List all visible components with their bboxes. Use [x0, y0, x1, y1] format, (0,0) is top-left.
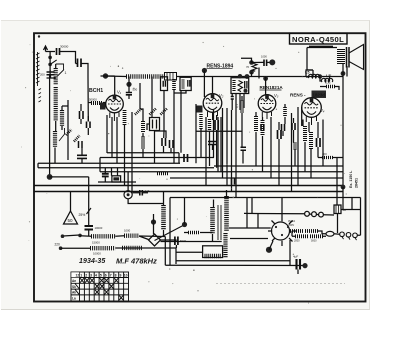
wire loop bottom inner: [176, 260, 290, 262]
resistor R-v3c: [283, 107, 287, 117]
triangle 50Hz: [64, 211, 78, 224]
wire top right loop: [307, 48, 347, 77]
coil T1: [172, 79, 176, 90]
svg-text:8: 8: [115, 274, 117, 278]
wire: [62, 100, 68, 160]
wire: [242, 150, 244, 163]
coil L3: [53, 131, 57, 148]
svg-text:25%: 25%: [79, 213, 86, 217]
svg-text:10: 10: [124, 274, 128, 278]
svg-text:50: 50: [68, 218, 74, 223]
coil L5': [322, 78, 333, 82]
svg-text:2000: 2000: [294, 240, 300, 243]
wire: [88, 230, 90, 237]
capacitor under T2: [231, 97, 234, 100]
wire: [153, 214, 155, 234]
bus y166 right: [214, 165, 343, 167]
bus pair y163.5/y167: [38, 163, 214, 168]
wire: [297, 270, 299, 275]
node dot under transformer: [341, 71, 346, 76]
wires T2 down: [232, 94, 244, 113]
wire to right vertical: [357, 198, 360, 236]
resistor R-v2b: [208, 119, 211, 131]
capacitor C-l2: [87, 122, 91, 129]
loop box winding: [205, 254, 222, 259]
wire: [98, 168, 136, 182]
earth hatch on frame-left: [37, 52, 39, 86]
switch Tm blade: [87, 208, 92, 214]
wire: [342, 64, 344, 77]
wire rectifier feed vert: [246, 198, 248, 229]
node dot AVC: [47, 174, 53, 180]
wire: [112, 168, 118, 176]
wire: [128, 77, 130, 100]
wire x341 lower: [342, 187, 344, 210]
svg-text:70: 70: [246, 65, 250, 69]
wire: [115, 235, 124, 238]
resistor on bus: [157, 172, 169, 175]
resistor slant RS2: [150, 109, 157, 115]
wire: [241, 96, 243, 147]
node dot x341: [341, 185, 346, 190]
svg-text:4: 4: [95, 274, 97, 278]
svg-text:4μF: 4μF: [293, 255, 298, 259]
grid cap block V1: [100, 103, 106, 110]
wire antenna top: [46, 52, 76, 64]
bus y157.5: [100, 157, 214, 159]
wire y131: [196, 130, 242, 132]
wire: [318, 157, 343, 159]
mains row2 dot: [59, 246, 63, 250]
svg-text:15000: 15000: [92, 241, 100, 245]
svg-text:Sk: Sk: [72, 285, 76, 289]
title box: [290, 33, 348, 44]
wire row2: [61, 247, 90, 249]
svg-text:220: 220: [55, 243, 61, 247]
capacitor C-v3b: [278, 130, 282, 139]
capacitor C-lamp: [140, 190, 143, 196]
divider resistor RD2: [305, 229, 318, 233]
wire: [81, 148, 83, 163]
wire wiper up: [184, 198, 186, 225]
divider resistor RD3: [295, 234, 308, 238]
wire: [49, 52, 51, 73]
node dot wiper: [182, 222, 187, 227]
wire choke: [163, 192, 165, 237]
wire: [54, 121, 57, 163]
faint long wire y284: [216, 283, 345, 285]
core lines: [218, 205, 221, 240]
svg-text:6: 6: [105, 274, 107, 278]
bus y197.5: [170, 197, 361, 199]
mains blade 1: [63, 235, 80, 236]
bus y171.7: [100, 171, 343, 173]
wire heater: [269, 198, 282, 250]
antenna A: [44, 46, 48, 52]
speck top-left: [38, 35, 40, 37]
switch arm 2: [59, 128, 65, 141]
bus y185.5: [34, 185, 343, 187]
capacitor C-l1: [80, 111, 84, 119]
wire: [87, 116, 89, 135]
choke end box: [165, 73, 177, 81]
IF transformer T2: [231, 78, 249, 94]
svg-text:1: 1: [80, 274, 82, 278]
resistor R-bias: [188, 231, 200, 235]
node dot under label: [202, 68, 207, 73]
svg-text:1000: 1000: [124, 229, 131, 233]
choke left winding: [161, 205, 166, 230]
svg-text:0,25: 0,25: [325, 81, 331, 85]
divider resistor RD1: [290, 229, 303, 233]
wire: [88, 102, 106, 104]
svg-text:RENS -: RENS -: [290, 93, 306, 98]
tube V1: [106, 95, 124, 113]
resistor R-x small: [322, 156, 333, 159]
node dot top bus right: [318, 74, 322, 78]
capacitor C-ag: [264, 60, 267, 67]
switch arm 1: [56, 64, 64, 76]
svg-text:50000: 50000: [89, 98, 97, 102]
wire top caps: [140, 77, 152, 118]
zigzag resistor R-t2: [252, 64, 257, 72]
bus y178: [170, 177, 343, 179]
resistor R-line1b: [124, 233, 139, 237]
loop wire b: [176, 251, 203, 253]
coil L1: [54, 68, 58, 85]
label 1823d box: [312, 91, 327, 99]
trimmer box: [112, 176, 121, 182]
svg-text:An: An: [72, 279, 76, 283]
speaker cone: [349, 45, 364, 70]
capacitor C-v4a: [317, 138, 321, 147]
wire: [184, 232, 213, 234]
resistor R-v3a: [254, 116, 258, 132]
capacitor C-ser: [57, 48, 60, 55]
capacitor C-v3d: [292, 123, 295, 130]
svg-text:0,1: 0,1: [235, 104, 239, 108]
svg-text:V₃: V₃: [274, 93, 279, 98]
svg-text:1934-35: 1934-35: [79, 258, 105, 265]
border frame: [34, 33, 366, 301]
resistor R-o1: [326, 85, 335, 88]
wire V1 anode: [101, 76, 115, 95]
tube V3: [258, 95, 276, 113]
wires L5: [306, 70, 330, 81]
capacitor C-v3c: [282, 124, 285, 131]
choke RFC long: [126, 74, 164, 78]
resistor R-line1: [91, 234, 115, 238]
svg-text:200: 200: [40, 73, 45, 77]
pot diamond: [149, 234, 161, 246]
tube V4: [302, 98, 322, 118]
node dot top bus left: [103, 73, 108, 78]
tube V2: [203, 94, 222, 113]
svg-text:100: 100: [322, 152, 327, 156]
wires V1 cluster verticals: [107, 109, 171, 192]
table header digits: [76, 274, 128, 278]
wires below V4: [298, 107, 323, 186]
svg-text:Ak: Ak: [72, 291, 76, 295]
svg-text:5000: 5000: [311, 240, 317, 243]
wire lamp: [128, 172, 163, 204]
mesh verticals: [214, 108, 237, 198]
heater dot: [266, 247, 272, 253]
svg-text:V₄: V₄: [320, 108, 325, 113]
wire T1: [164, 90, 186, 163]
transformer winding lower: [223, 233, 227, 258]
svg-text:12: 12: [76, 274, 80, 278]
wire loop: [76, 64, 89, 122]
capacitor on bus: [232, 178, 235, 185]
table header fill: [71, 272, 79, 277]
node dots bus: [245, 74, 250, 79]
wire: [212, 145, 214, 151]
coil L5: [309, 74, 320, 78]
node dot: [249, 60, 254, 65]
resistor R-v3b: [261, 120, 265, 136]
transformer secondary winding: [224, 196, 229, 231]
bus y191.5: [34, 191, 343, 193]
wire y177: [50, 176, 89, 178]
svg-text:2: 2: [85, 274, 87, 278]
capacitor C-t2g: [241, 147, 247, 150]
wire: [320, 87, 339, 91]
node dot V1 screen: [126, 82, 131, 87]
svg-text:REN1821A: REN1821A: [260, 85, 284, 90]
svg-text:NORA-Q450L: NORA-Q450L: [292, 35, 344, 44]
capacitor C-m2: [170, 140, 174, 148]
table row labels: [72, 279, 76, 300]
padder box: [150, 118, 160, 131]
capacitor C-a3: [47, 72, 55, 75]
capacitor C-a2: [78, 59, 82, 68]
wires transformer: [213, 190, 269, 242]
loop wire a: [161, 241, 222, 243]
wire: [241, 58, 264, 76]
resistor R-t2out: [240, 101, 244, 114]
svg-text:5000: 5000: [180, 239, 187, 243]
resistor R-m2: [141, 137, 145, 150]
choke oval: [326, 231, 334, 236]
capacitor C-l4: [77, 155, 87, 158]
svg-text:5: 5: [100, 274, 102, 278]
wire rectifier feed stub: [257, 214, 259, 228]
resistor R-k1: [123, 110, 127, 125]
speaker bars: [347, 47, 350, 68]
IF transformer T1 box B: [180, 77, 191, 90]
wires below V2: [196, 104, 221, 186]
wire + terminal dot: [267, 61, 270, 63]
resistor R-m1: [141, 121, 145, 133]
svg-text:7: 7: [110, 274, 112, 278]
IF transformer T1 box A: [161, 77, 168, 91]
resistor R-g1: [91, 101, 103, 105]
node dots antenna: [48, 56, 52, 60]
wires divider: [292, 231, 340, 236]
capacitor C-v3a: [261, 124, 264, 131]
wire: [100, 153, 179, 172]
svg-text:1823d: 1823d: [313, 93, 326, 98]
wire mains vertical: [88, 177, 90, 226]
svg-text:3: 3: [90, 274, 92, 278]
wire loop left tall: [169, 198, 171, 266]
svg-text:28451: 28451: [355, 178, 359, 188]
wire: [259, 68, 266, 96]
lamp bumps: [305, 211, 310, 216]
capacitor C-v1s: [126, 93, 132, 95]
resistor slant RS1: [135, 109, 142, 115]
node dot choke top: [151, 219, 156, 224]
svg-text:Ex. 1150 L: Ex. 1150 L: [349, 170, 353, 188]
resistor R-v4b: [309, 132, 313, 149]
resistor R-l1: [60, 110, 64, 126]
resistor R-v3d: [293, 143, 297, 150]
output transformer hatch: [337, 49, 345, 64]
resistor R-v4a: [303, 126, 307, 142]
wires pot: [139, 236, 176, 242]
svg-text:350V: 350V: [288, 223, 294, 227]
wire vertical AVC: [49, 70, 52, 177]
pilot lamp: [124, 191, 132, 199]
electrolytic C-e1: [297, 259, 301, 270]
resistor R-line2b: [122, 246, 142, 250]
capacitor C-b1: [85, 226, 94, 230]
svg-text:10000: 10000: [93, 252, 101, 256]
transformer primary winding: [210, 207, 215, 234]
capacitor C-y177: [102, 174, 109, 177]
capacitor C-v2a: [215, 120, 218, 130]
wire x341: [342, 77, 344, 188]
scan page background: [1, 20, 370, 310]
pot wiper arrow: [155, 226, 184, 241]
wire rectifier feed upper: [229, 227, 271, 229]
loop wire d: [115, 248, 176, 264]
tube V5 rectifier: [272, 222, 290, 240]
capacitor C-m1: [162, 138, 166, 146]
bottom bus: [165, 264, 304, 266]
resistor slant RS3: [161, 109, 168, 115]
fuse box: [334, 205, 341, 214]
wire lamps: [244, 198, 334, 216]
resistor R-l2 slant: [66, 130, 72, 136]
svg-text:1: 1: [65, 71, 67, 75]
wire: [132, 192, 148, 194]
svg-text:30000: 30000: [60, 45, 69, 49]
paper specks: [21, 42, 349, 304]
wires below V3: [256, 104, 295, 192]
svg-text:1000: 1000: [261, 55, 267, 59]
wire: [80, 104, 82, 124]
capacitor C-l3: [79, 141, 83, 148]
table X marks: [75, 278, 123, 300]
node dot: [249, 70, 254, 75]
svg-text:V₁: V₁: [117, 90, 122, 95]
svg-text:9: 9: [120, 274, 122, 278]
divider resistor RD4: [310, 234, 323, 238]
wire: [47, 64, 56, 78]
grid cap block V2: [197, 106, 203, 113]
capacitor C-mid: [208, 142, 217, 145]
bus y152.8: [107, 152, 179, 154]
switch S-ant: [50, 60, 57, 65]
svg-text:V₂: V₂: [219, 93, 224, 98]
wire: [338, 210, 361, 234]
wire: [204, 71, 212, 98]
wire rectifier down: [289, 240, 291, 266]
table frame: [71, 272, 129, 301]
loop inner box: [203, 246, 223, 258]
svg-text:500: 500: [133, 88, 138, 92]
wire row1: [80, 235, 91, 238]
svg-text:L5': L5': [326, 74, 331, 78]
resistor R-v2a: [199, 114, 202, 129]
loop wire c: [139, 236, 165, 265]
wire top bus: [106, 75, 344, 78]
winding loop symbols: [340, 232, 345, 237]
node dot bus end: [302, 263, 307, 268]
wire: [175, 245, 177, 248]
capacitor C-bus: [184, 154, 188, 162]
wire x352: [337, 158, 352, 210]
capacitor C-line: [175, 237, 178, 246]
wire triangle: [70, 192, 72, 212]
svg-text:M.F 478kHz: M.F 478kHz: [116, 257, 157, 266]
node dots T2: [238, 74, 242, 78]
svg-text:La: La: [72, 296, 76, 300]
coil L2: [54, 87, 58, 121]
resistor R-line2: [90, 246, 115, 250]
svg-text:10000: 10000: [95, 226, 103, 230]
resistor R-l3 slant: [74, 136, 80, 142]
svg-text:BCH1: BCH1: [89, 88, 103, 94]
